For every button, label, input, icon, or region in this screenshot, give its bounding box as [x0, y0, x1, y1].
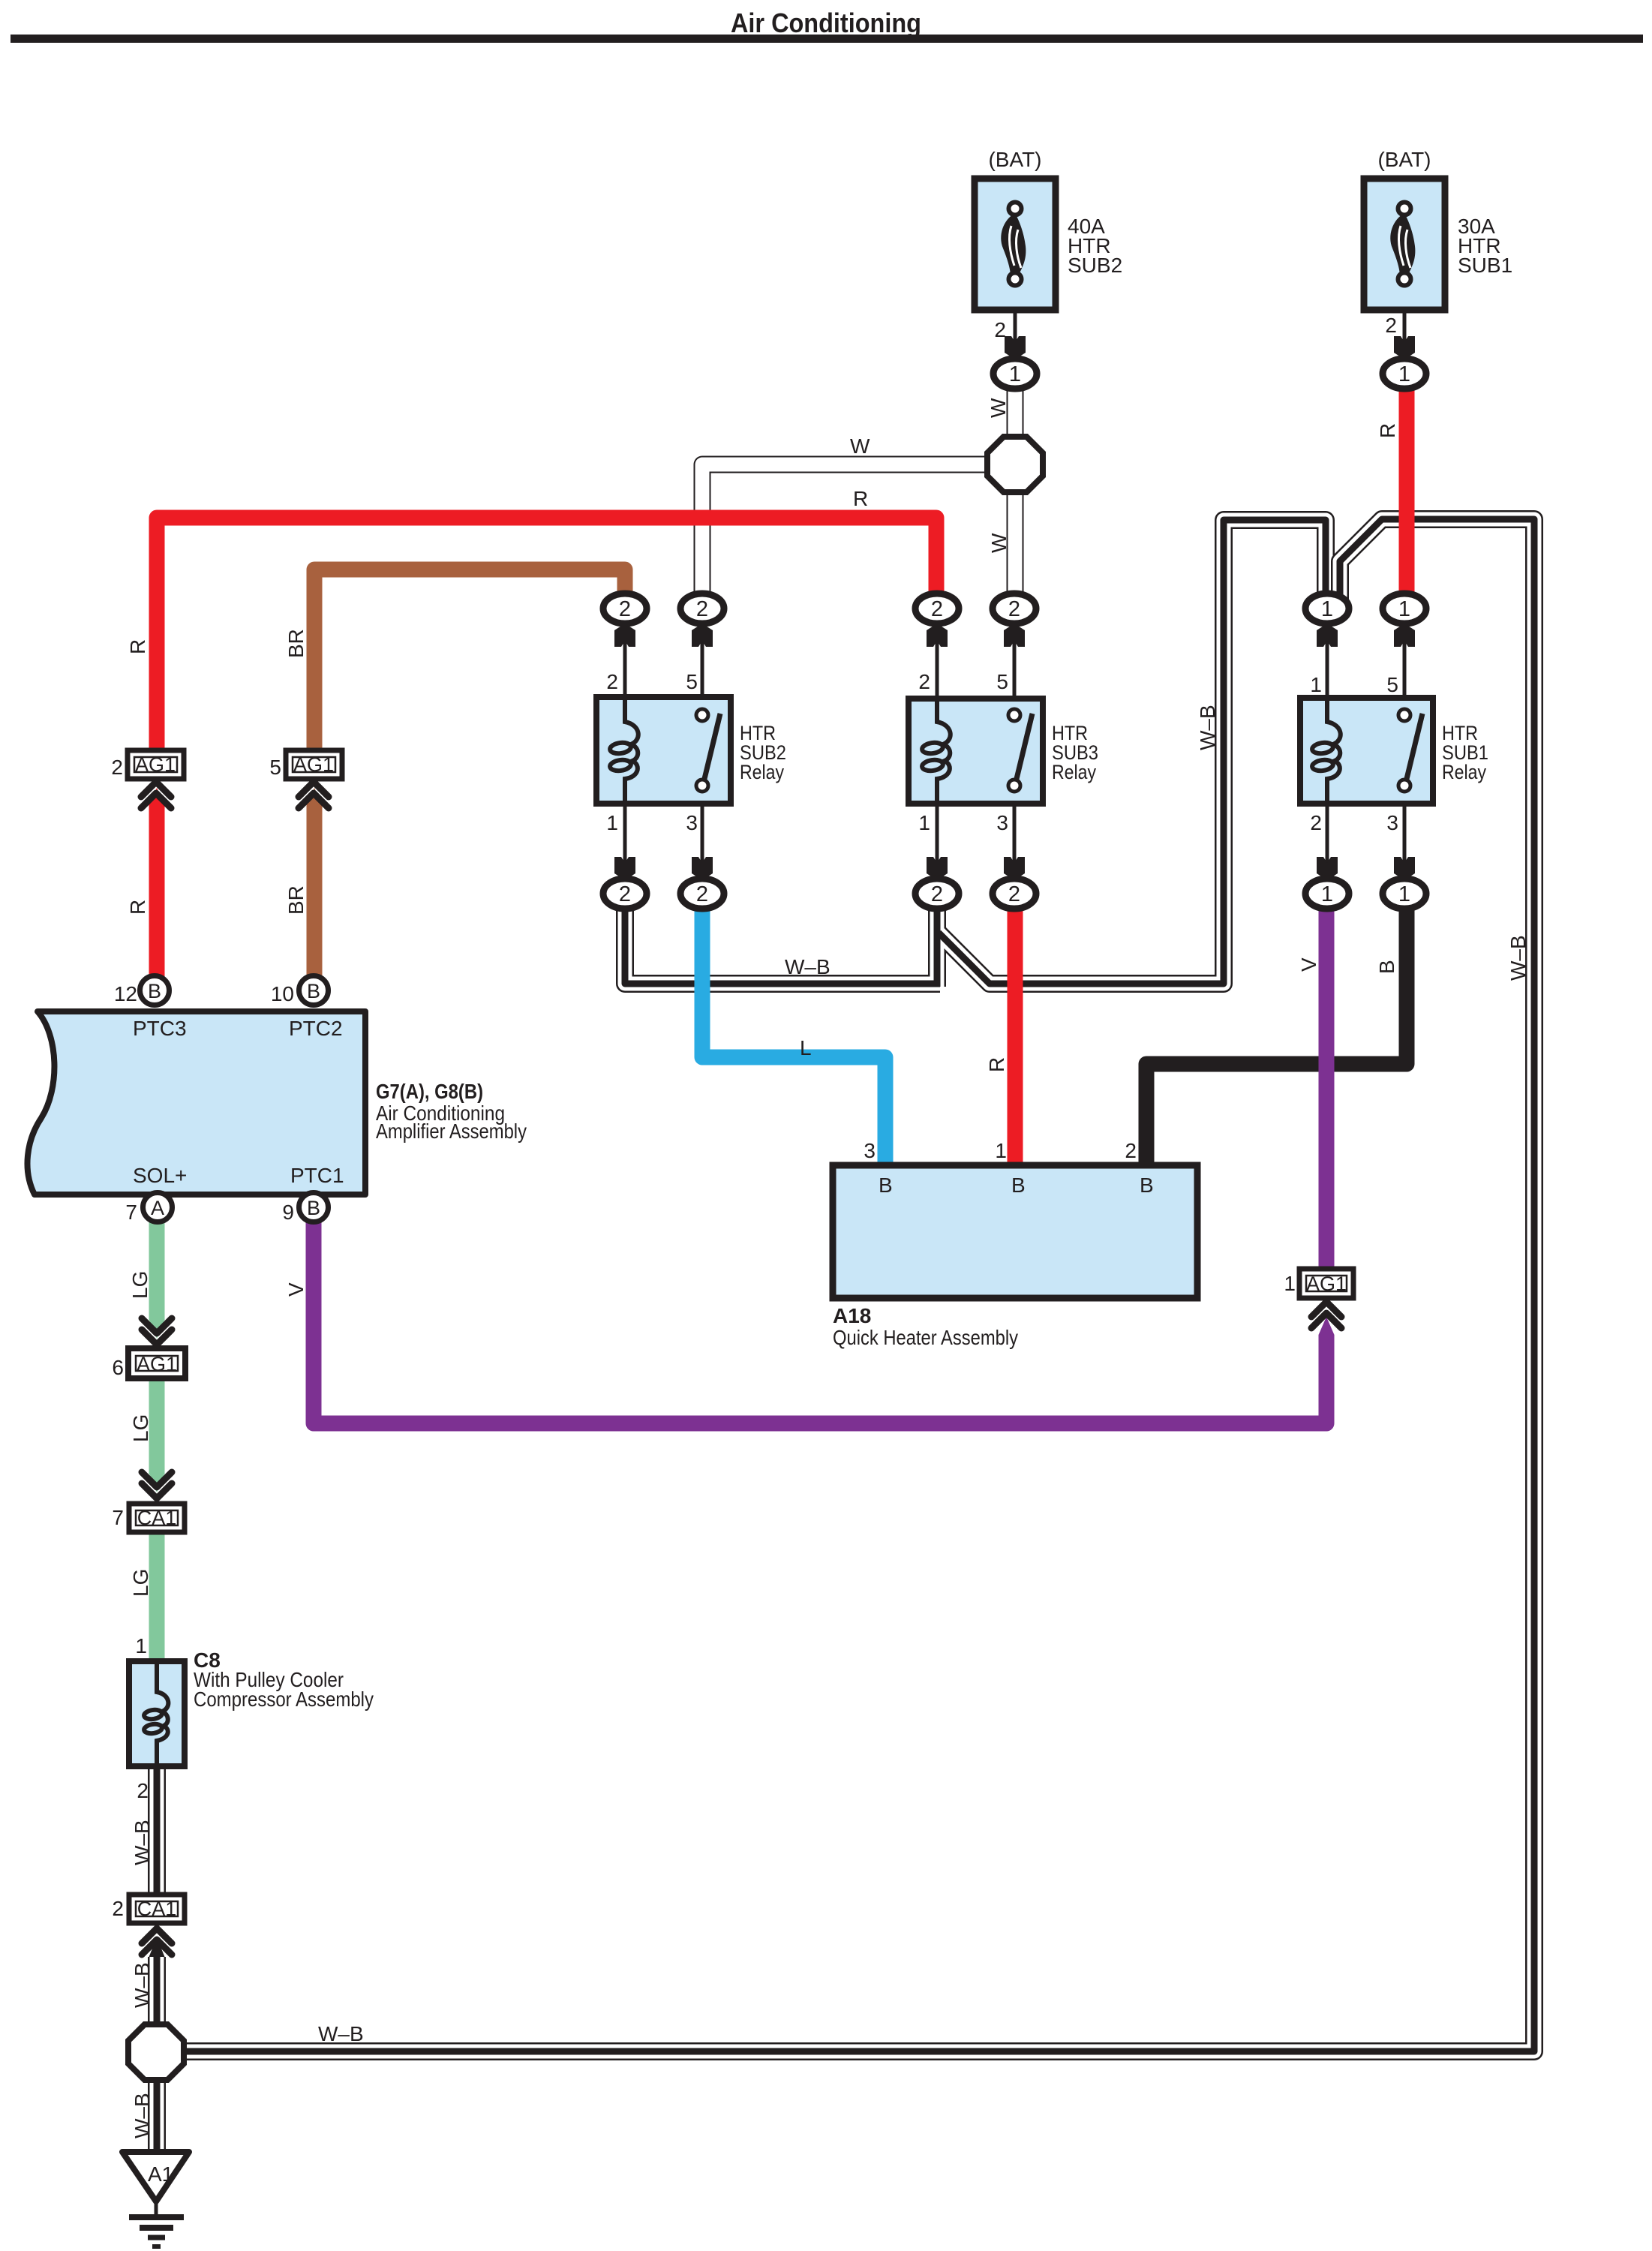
- svg-text:B: B: [879, 1174, 893, 1197]
- svg-text:12: 12: [114, 982, 137, 1005]
- svg-text:3: 3: [686, 811, 698, 834]
- svg-text:2: 2: [994, 318, 1006, 341]
- svg-text:5: 5: [686, 670, 698, 693]
- svg-text:PTC2: PTC2: [289, 1017, 343, 1040]
- wire V purple: amplifier PTC1 down right and up to HTR SUB1 pin 2 oval: [314, 1217, 1326, 1423]
- chevrons above AG1-6 connector: [142, 1318, 172, 1345]
- svg-text:LG: LG: [129, 1569, 152, 1597]
- svg-text:(BAT): (BAT): [988, 148, 1041, 171]
- relay HTR SUB2: [596, 697, 731, 804]
- svg-text:1: 1: [1321, 597, 1333, 621]
- chevrons below AG1-1 connector: [1311, 1302, 1341, 1328]
- svg-text:Amplifier Assembly: Amplifier Assembly: [376, 1119, 527, 1143]
- svg-text:2: 2: [619, 597, 631, 621]
- svg-text:PTC1: PTC1: [290, 1164, 344, 1187]
- svg-text:SOL+: SOL+: [133, 1164, 187, 1187]
- svg-text:W–B: W–B: [131, 1820, 154, 1865]
- svg-text:1: 1: [995, 1139, 1007, 1162]
- connector CA1 pin2: [129, 1895, 185, 1923]
- svg-text:W: W: [987, 398, 1010, 418]
- svg-text:W–B: W–B: [1506, 935, 1530, 981]
- wire W-B net: HTR SUB1 pin-1 oval around right side down to ground octagon: [185, 519, 1534, 2051]
- wire R red: amplifier PTC3 up over to HTR SUB3 pin 2 oval: [157, 518, 936, 754]
- svg-text:3: 3: [864, 1139, 876, 1162]
- svg-text:2: 2: [112, 1897, 124, 1920]
- svg-text:CA1: CA1: [137, 1507, 177, 1529]
- connector CA1 pin7: [129, 1504, 185, 1532]
- svg-text:Relay: Relay: [1442, 761, 1486, 783]
- title rule: [11, 35, 1643, 43]
- svg-text:Air Conditioning: Air Conditioning: [731, 8, 921, 38]
- wire LG green: amplifier SOL+ down to compressor pin 1: [149, 1217, 165, 1321]
- wire W: 40A fuse oval down to octagon junction: [1007, 384, 1024, 450]
- svg-text:W–B: W–B: [785, 955, 831, 978]
- svg-text:AG1: AG1: [293, 753, 334, 776]
- svg-text:2: 2: [606, 670, 618, 693]
- wire B black: HTR SUB1 pin-3 oval to Quick Heater pin 2: [1146, 900, 1407, 1171]
- chevrons below AG1-5 connector: [299, 782, 329, 808]
- svg-text:2: 2: [1008, 597, 1020, 621]
- svg-text:R: R: [1376, 423, 1399, 438]
- svg-text:B: B: [307, 1197, 320, 1219]
- svg-text:B: B: [307, 980, 320, 1002]
- svg-text:W: W: [850, 434, 870, 458]
- svg-text:B: B: [148, 980, 161, 1002]
- svg-text:B: B: [1140, 1174, 1154, 1197]
- svg-text:G7(A), G8(B): G7(A), G8(B): [376, 1080, 483, 1103]
- svg-text:2: 2: [619, 882, 631, 906]
- ground A1: [122, 2152, 189, 2246]
- svg-text:7: 7: [112, 1506, 124, 1529]
- svg-text:2: 2: [696, 597, 708, 621]
- node circle B pin9 PTC1: [299, 1193, 329, 1222]
- connector AG1 pin5: [286, 750, 342, 779]
- wire W-B net: relay coil grounds to HTR SUB1 pin-1 oval (white w/ black stripe): [625, 520, 1326, 987]
- svg-text:1: 1: [918, 811, 930, 834]
- svg-text:W: W: [987, 533, 1011, 553]
- node oval 1 below 30A fuse: [1383, 359, 1426, 389]
- svg-text:W–B: W–B: [318, 2022, 364, 2045]
- svg-text:L: L: [800, 1036, 812, 1059]
- svg-text:A: A: [151, 1197, 164, 1219]
- svg-text:1: 1: [1284, 1272, 1296, 1295]
- svg-text:3: 3: [1386, 811, 1398, 834]
- svg-text:5: 5: [269, 756, 281, 779]
- node oval 1 below 40A fuse: [993, 359, 1037, 389]
- svg-text:AG1: AG1: [137, 1353, 177, 1375]
- junction octagon (W-B ground): [128, 2024, 184, 2080]
- svg-text:1: 1: [135, 1634, 147, 1657]
- wire: ground triangle link: [155, 2198, 158, 2215]
- svg-text:2: 2: [111, 756, 123, 779]
- arrow down into 40A fuse oval: [1005, 336, 1026, 359]
- svg-text:Compressor Assembly: Compressor Assembly: [194, 1687, 374, 1711]
- wire W: octagon left then down to HTR SUB2 pin 5 oval: [702, 464, 990, 600]
- svg-text:AG1: AG1: [135, 753, 176, 776]
- svg-text:A18: A18: [833, 1304, 871, 1327]
- node ovals feeding relay top pins: [603, 594, 647, 624]
- svg-text:A1: A1: [148, 2162, 173, 2186]
- svg-text:BR: BR: [284, 629, 308, 658]
- svg-text:1: 1: [1310, 673, 1322, 696]
- component A18 Quick Heater Assembly box: [833, 1165, 1197, 1298]
- svg-text:7: 7: [125, 1201, 137, 1224]
- svg-text:2: 2: [1385, 314, 1397, 337]
- connector AG1 pin1: [1299, 1269, 1353, 1298]
- svg-text:1: 1: [1321, 882, 1333, 906]
- chevrons below CA1-2 connector: [142, 1928, 172, 1955]
- arrow down into 30A fuse oval: [1394, 336, 1415, 359]
- arrows up into relay-feed ovals: [614, 624, 1415, 647]
- wire R red: 30A fuse oval down to HTR SUB1 pin 5 oval: [1399, 384, 1415, 600]
- fuse F 30A HTR SUB1: [1364, 179, 1445, 310]
- svg-text:PTC3: PTC3: [133, 1017, 187, 1040]
- svg-text:B: B: [1375, 960, 1398, 974]
- svg-text:CA1: CA1: [137, 1898, 177, 1920]
- svg-text:1: 1: [1398, 362, 1410, 386]
- wire L blue: HTR SUB2 pin 3 oval down to Quick Heater pin 3: [702, 900, 885, 1171]
- svg-text:2: 2: [137, 1779, 149, 1802]
- node circle B pin12 PTC3: [140, 976, 170, 1005]
- svg-text:2: 2: [1310, 811, 1322, 834]
- chevrons below AG1-2 connector: [141, 782, 171, 808]
- svg-text:2: 2: [931, 882, 943, 906]
- svg-text:1: 1: [1398, 597, 1410, 621]
- svg-text:2: 2: [1008, 882, 1020, 906]
- svg-text:Relay: Relay: [740, 761, 784, 783]
- svg-text:SUB2: SUB2: [1068, 254, 1122, 277]
- junction octagon (W wire): [987, 437, 1043, 492]
- svg-text:2: 2: [1125, 1139, 1137, 1162]
- relay HTR SUB1: [1300, 698, 1433, 804]
- svg-text:R: R: [853, 487, 868, 510]
- component C8 compressor box: [129, 1661, 185, 1766]
- wire pin leads: relay top pins: [625, 638, 1404, 713]
- svg-text:3: 3: [996, 811, 1008, 834]
- svg-text:9: 9: [282, 1201, 294, 1224]
- svg-text:LG: LG: [129, 1414, 152, 1442]
- svg-text:V: V: [1297, 957, 1320, 972]
- node circle A pin7 SOL+: [143, 1193, 173, 1222]
- chevrons above CA1-7 connector: [142, 1472, 172, 1498]
- connector AG1 pin2: [128, 750, 184, 779]
- svg-text:W–B: W–B: [1196, 705, 1219, 750]
- svg-text:SUB1: SUB1: [1458, 254, 1512, 277]
- svg-text:B: B: [1011, 1174, 1026, 1197]
- component G7/G8 Air Conditioning Amplifier Assembly box: [27, 1011, 365, 1195]
- svg-text:2: 2: [696, 882, 708, 906]
- fuse F 40A HTR SUB2: [975, 179, 1056, 310]
- arrows down into relay-output ovals: [614, 857, 1415, 880]
- svg-text:2: 2: [918, 670, 930, 693]
- svg-text:R: R: [126, 900, 149, 915]
- svg-text:R: R: [126, 639, 149, 654]
- svg-text:Relay: Relay: [1052, 761, 1096, 783]
- node ovals on relay bottom pins: [603, 879, 647, 909]
- svg-text:2: 2: [931, 597, 943, 621]
- svg-text:V: V: [284, 1282, 308, 1297]
- svg-text:1: 1: [606, 811, 618, 834]
- relay HTR SUB3: [909, 699, 1043, 804]
- svg-text:5: 5: [996, 670, 1008, 693]
- svg-text:LG: LG: [128, 1271, 152, 1299]
- svg-text:AG1: AG1: [1306, 1273, 1347, 1295]
- wire pin leads: relay bottom pins: [625, 804, 1404, 863]
- wire pin: 40A fuse pin 2 lead: [1014, 308, 1017, 353]
- connector AG1 pin6: [128, 1348, 185, 1378]
- svg-text:(BAT): (BAT): [1377, 148, 1431, 171]
- wire W-B: compressor pin 2 down through CA1 and octagon to ground A1: [149, 1766, 165, 2161]
- svg-text:BR: BR: [284, 885, 308, 915]
- svg-text:W–B: W–B: [131, 1962, 154, 2008]
- wire R red: HTR SUB3 pin 3 oval down to Quick Heater pin 1: [1008, 900, 1023, 1171]
- svg-text:1: 1: [1009, 362, 1021, 386]
- svg-text:6: 6: [112, 1356, 124, 1379]
- node circle B pin10 PTC2: [299, 976, 329, 1005]
- wire BR brown: amplifier PTC2 up over to HTR SUB2 pin 2 oval: [314, 570, 625, 754]
- wire pin: 30A fuse pin 2 lead: [1403, 308, 1407, 353]
- svg-text:1: 1: [1398, 882, 1410, 906]
- svg-text:R: R: [985, 1057, 1008, 1072]
- wire W: octagon down to HTR SUB3 pin 5 oval: [1007, 480, 1024, 600]
- svg-text:10: 10: [271, 982, 294, 1005]
- svg-text:5: 5: [1386, 673, 1398, 696]
- svg-text:W–B: W–B: [131, 2093, 154, 2138]
- svg-text:Quick Heater Assembly: Quick Heater Assembly: [833, 1326, 1018, 1349]
